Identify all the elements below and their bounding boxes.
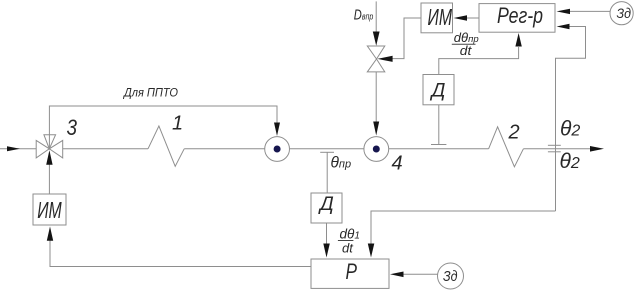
differentiator D top box <box>423 75 454 105</box>
differentiator D bottom box <box>311 193 342 223</box>
node D top tap tick <box>431 144 446 146</box>
svg-text:ИМ: ИМ <box>37 197 62 223</box>
wire pipe hx1 to sensor1 <box>184 148 265 150</box>
wire pipe outlet <box>523 148 591 150</box>
wire Reg-r to IM top <box>467 17 479 19</box>
arrow left into valve4 <box>377 56 392 62</box>
heat exchanger section 2 zigzag <box>489 127 524 167</box>
arrow left into Reg-r from Zd <box>557 9 571 14</box>
arrow left into Reg-r feedback <box>557 24 570 29</box>
wire through valve3 top triangle <box>48 135 50 149</box>
arrow left into P from Zd <box>390 272 404 278</box>
svg-text:Зд: Зд <box>443 268 458 285</box>
wire valve3 to IM left <box>48 164 50 194</box>
svg-text:θпр: θпр <box>331 155 352 172</box>
svg-text:dθпр: dθпр <box>454 30 479 45</box>
wire valve4 to sensor4 <box>375 72 377 122</box>
sensor 4 dot <box>373 146 380 153</box>
heat exchanger section 1 zigzag <box>148 126 184 166</box>
regulator Reg-r box <box>479 4 555 33</box>
wire pipe sensor1 to sensor4 <box>290 148 364 150</box>
valve 4 injection body <box>367 46 385 59</box>
svg-text:Для ППТО: Для ППТО <box>122 86 178 100</box>
wire tap to D bottom <box>326 152 328 193</box>
wire valve3 top riser <box>49 106 277 135</box>
arrow down into sensor1 <box>274 123 280 137</box>
wire D bottom to P <box>326 223 328 244</box>
svg-text:4: 4 <box>392 153 403 175</box>
svg-text:3: 3 <box>67 115 78 140</box>
wire Zd bottom to P <box>404 273 438 275</box>
wire theta2 feedback to Reg-r <box>556 27 586 212</box>
actuator IM left box <box>33 194 66 225</box>
wire pipe sensor4 to hx2 <box>389 148 489 150</box>
wire IM top to valve4 <box>392 18 421 59</box>
setpoint Zd bottom circle <box>438 263 464 289</box>
svg-text:dt: dt <box>460 44 472 58</box>
arrow down into P from D <box>323 244 330 258</box>
svg-text:2: 2 <box>508 122 520 144</box>
svg-text:Д: Д <box>318 193 334 215</box>
wire P output to IM left <box>50 241 311 267</box>
arrow up into valve3 <box>46 150 52 165</box>
node theta2 tap tick above <box>548 144 561 146</box>
arrow inlet right <box>7 146 20 151</box>
wire Zd top to Reg-r <box>570 10 610 12</box>
wire main pipe inlet <box>0 148 36 150</box>
svg-text:Зд: Зд <box>617 5 632 21</box>
wire theta2 to P input <box>371 211 556 244</box>
sensor 1 dot <box>274 146 281 153</box>
setpoint Zd top circle <box>610 2 633 25</box>
arrow outlet right <box>590 146 604 152</box>
arrow down into valve4 <box>373 32 380 46</box>
arrow up into Reg-r <box>515 33 521 47</box>
actuator IM top box <box>421 3 453 33</box>
wire D top tap <box>438 104 440 145</box>
arrow left into IM top <box>454 15 468 21</box>
node theta-pr tap <box>320 151 334 153</box>
svg-text:Д: Д <box>430 79 446 101</box>
svg-text:Dвпр: Dвпр <box>354 7 374 24</box>
svg-text:dt: dt <box>342 240 354 255</box>
valve 3 three-way body <box>36 140 49 158</box>
arrow up into IM left <box>47 227 53 241</box>
sensor circle 1 <box>265 137 290 162</box>
svg-text:Рег-р: Рег-р <box>497 3 543 28</box>
svg-text:θ2: θ2 <box>560 150 580 173</box>
wire Dvpr drop line <box>375 1 377 31</box>
svg-text:ИМ: ИМ <box>428 4 453 30</box>
arrow down into sensor4 <box>373 122 379 136</box>
wire D top to Reg-r <box>439 47 519 75</box>
arrow down into P from theta2 <box>368 244 375 258</box>
wire pipe valve to hx1 <box>63 148 148 150</box>
svg-text:1: 1 <box>172 113 183 135</box>
node theta2 tap tick below <box>548 151 561 153</box>
regulator P box <box>311 259 389 288</box>
svg-text:θ2: θ2 <box>560 118 580 141</box>
sensor circle 4 <box>364 137 389 162</box>
svg-text:Р: Р <box>346 259 358 284</box>
